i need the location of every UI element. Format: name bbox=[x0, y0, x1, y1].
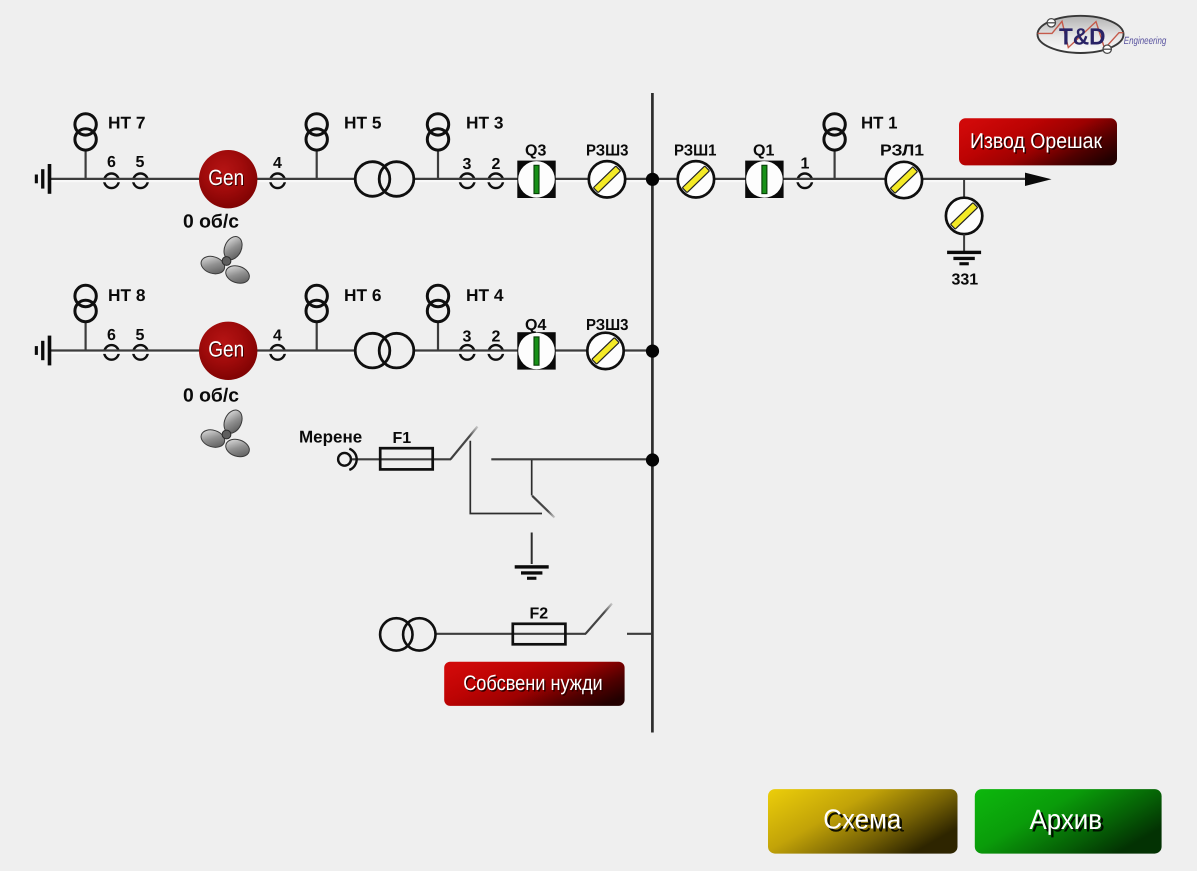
busbar (vertical bus) bbox=[651, 93, 654, 733]
ground (331) bbox=[947, 251, 981, 266]
switch blade earth (open) bbox=[532, 496, 554, 518]
breaker Q4 bbox=[517, 332, 555, 369]
disconnector 6 (row 1) bbox=[104, 174, 119, 189]
wire stub to bus (station supply) bbox=[627, 633, 652, 635]
wire casing row 2 bbox=[51, 351, 651, 354]
disconnector 6 (row 2) bbox=[104, 345, 119, 360]
ground (row 2 left) bbox=[35, 336, 52, 366]
svg-text:6: 6 bbox=[107, 154, 116, 171]
wire PT to fuse F1 bbox=[350, 458, 451, 460]
node (bus junction measure) bbox=[646, 453, 659, 466]
svg-text:6: 6 bbox=[107, 327, 116, 344]
disconnector 2 (row 1) bbox=[489, 174, 504, 189]
disconnector 4 (row 2) bbox=[270, 345, 285, 360]
svg-text:Gen: Gen bbox=[208, 336, 244, 361]
disconnector 4 (row 1) bbox=[270, 174, 285, 189]
wire to ground (measure) bbox=[531, 533, 533, 565]
fuse F1 bbox=[380, 448, 433, 469]
svg-text:1: 1 bbox=[801, 156, 810, 173]
disconnector 5 (row 1) bbox=[133, 174, 148, 189]
svg-text:0 об/с: 0 об/с bbox=[183, 386, 239, 407]
svg-text:НТ 3: НТ 3 bbox=[466, 114, 504, 133]
relay РЗШ3 (row 2) bbox=[587, 333, 623, 369]
disconnector 1 (row 1) bbox=[798, 174, 813, 189]
transformer T2 (double circle) bbox=[355, 333, 414, 368]
svg-text:НТ 6: НТ 6 bbox=[344, 286, 382, 305]
svg-text:Q1: Q1 bbox=[753, 143, 774, 160]
svg-text:F1: F1 bbox=[393, 430, 412, 447]
fan icon (row 2) bbox=[199, 407, 252, 459]
svg-text:НТ 8: НТ 8 bbox=[108, 286, 146, 305]
disconnector 2 (row 2) bbox=[489, 345, 504, 360]
wire 331 branch (down from line) bbox=[963, 179, 965, 198]
switch blade F1 (open) bbox=[451, 427, 478, 460]
svg-text:Q4: Q4 bbox=[525, 317, 546, 334]
fan icon (row 1) bbox=[199, 234, 252, 286]
svg-text:Q3: Q3 bbox=[525, 143, 546, 160]
svg-text:Собсвени нужди: Собсвени нужди bbox=[463, 672, 603, 695]
svg-text:2: 2 bbox=[492, 329, 501, 346]
svg-text:T&D: T&D bbox=[1059, 24, 1106, 50]
transformer T1 (double circle) bbox=[355, 162, 414, 197]
disconnector 3 (row 1) bbox=[460, 174, 475, 189]
svg-text:НТ 4: НТ 4 bbox=[466, 286, 504, 305]
disconnector 3 (row 2) bbox=[460, 345, 475, 360]
svg-text:3: 3 bbox=[463, 156, 472, 173]
wire row 2 (ground to bus) bbox=[51, 349, 651, 351]
logo ellipse bbox=[1038, 16, 1124, 53]
svg-text:НТ 7: НТ 7 bbox=[108, 114, 146, 133]
svg-text:РЗЛ1: РЗЛ1 bbox=[880, 143, 924, 160]
svg-text:Мерене: Мерене bbox=[299, 428, 362, 447]
wire measure line to bus bbox=[491, 458, 651, 460]
relay РЗШ1 bbox=[678, 161, 714, 197]
disconnector 5 (row 2) bbox=[133, 345, 148, 360]
transformer HT7 bbox=[75, 114, 96, 179]
svg-text:F2: F2 bbox=[530, 606, 549, 623]
switch blade F2 (open) bbox=[586, 604, 613, 634]
transformer HT4 bbox=[427, 285, 448, 350]
ground (measure branch) bbox=[515, 565, 549, 580]
relay РЗЛ1 bbox=[886, 162, 922, 198]
transformer HT8 bbox=[75, 285, 96, 350]
svg-text:4: 4 bbox=[273, 328, 282, 345]
logo node circle (bottom right) bbox=[1103, 45, 1111, 53]
wire transformer to blade F2 bbox=[420, 633, 586, 635]
svg-text:5: 5 bbox=[136, 154, 145, 171]
transformer HT6 bbox=[306, 285, 327, 350]
generator G1 bbox=[199, 150, 257, 208]
button Собсвени нужди bbox=[444, 662, 624, 706]
svg-text:НТ 1: НТ 1 bbox=[861, 114, 898, 133]
svg-text:Архив: Архив bbox=[1030, 804, 1103, 835]
svg-text:РЗШ1: РЗШ1 bbox=[674, 143, 717, 160]
arrow (line outgoing) bbox=[1025, 173, 1052, 186]
logo node circle (top left) bbox=[1047, 19, 1056, 27]
svg-text:2: 2 bbox=[492, 156, 501, 173]
ground (row 1 left) bbox=[35, 164, 52, 194]
svg-text:Gen: Gen bbox=[208, 165, 244, 190]
relay 331 (earthing switch) bbox=[946, 198, 982, 234]
logo ECG zigzag bbox=[1038, 21, 1124, 48]
wire L-link (blade to earth blade) bbox=[470, 441, 542, 514]
svg-text:НТ 5: НТ 5 bbox=[344, 114, 382, 133]
wire casing row 1 bbox=[51, 179, 1030, 182]
wire 331 to ground bbox=[963, 234, 965, 251]
transformer T3 (double circle, station supply) bbox=[380, 618, 435, 650]
svg-text:5: 5 bbox=[136, 327, 145, 344]
fuse F2 bbox=[513, 624, 566, 645]
relay РЗШ3 (row 1) bbox=[589, 161, 625, 197]
generator G2 bbox=[199, 322, 257, 380]
svg-text:Engineering: Engineering bbox=[1124, 35, 1167, 47]
breaker Q3 bbox=[517, 161, 555, 198]
wire row 1 (ground to arrow) bbox=[51, 178, 1030, 180]
svg-text:РЗШ3: РЗШ3 bbox=[586, 317, 629, 334]
svg-text:0 об/с: 0 об/с bbox=[183, 212, 239, 233]
svg-text:Извод Орешак: Извод Орешак bbox=[970, 129, 1103, 153]
wire earth tap (down from measure line) bbox=[531, 460, 533, 496]
svg-text:331: 331 bbox=[952, 272, 979, 289]
voltage transformer (Мерене) bbox=[338, 449, 357, 470]
button Архив bbox=[975, 789, 1162, 854]
transformer HT3 bbox=[427, 114, 448, 179]
svg-text:3: 3 bbox=[463, 329, 472, 346]
node (bus junction row 2) bbox=[646, 345, 659, 358]
transformer HT5 bbox=[306, 114, 327, 179]
svg-text:РЗШ3: РЗШ3 bbox=[586, 143, 629, 160]
svg-text:4: 4 bbox=[273, 155, 282, 172]
breaker Q1 bbox=[745, 161, 783, 198]
button Схема bbox=[768, 789, 958, 854]
button Извод Орешак bbox=[959, 118, 1117, 165]
node (bus junction row 1) bbox=[646, 173, 659, 186]
transformer HT1 bbox=[824, 114, 845, 179]
svg-text:Схема: Схема bbox=[823, 804, 902, 835]
